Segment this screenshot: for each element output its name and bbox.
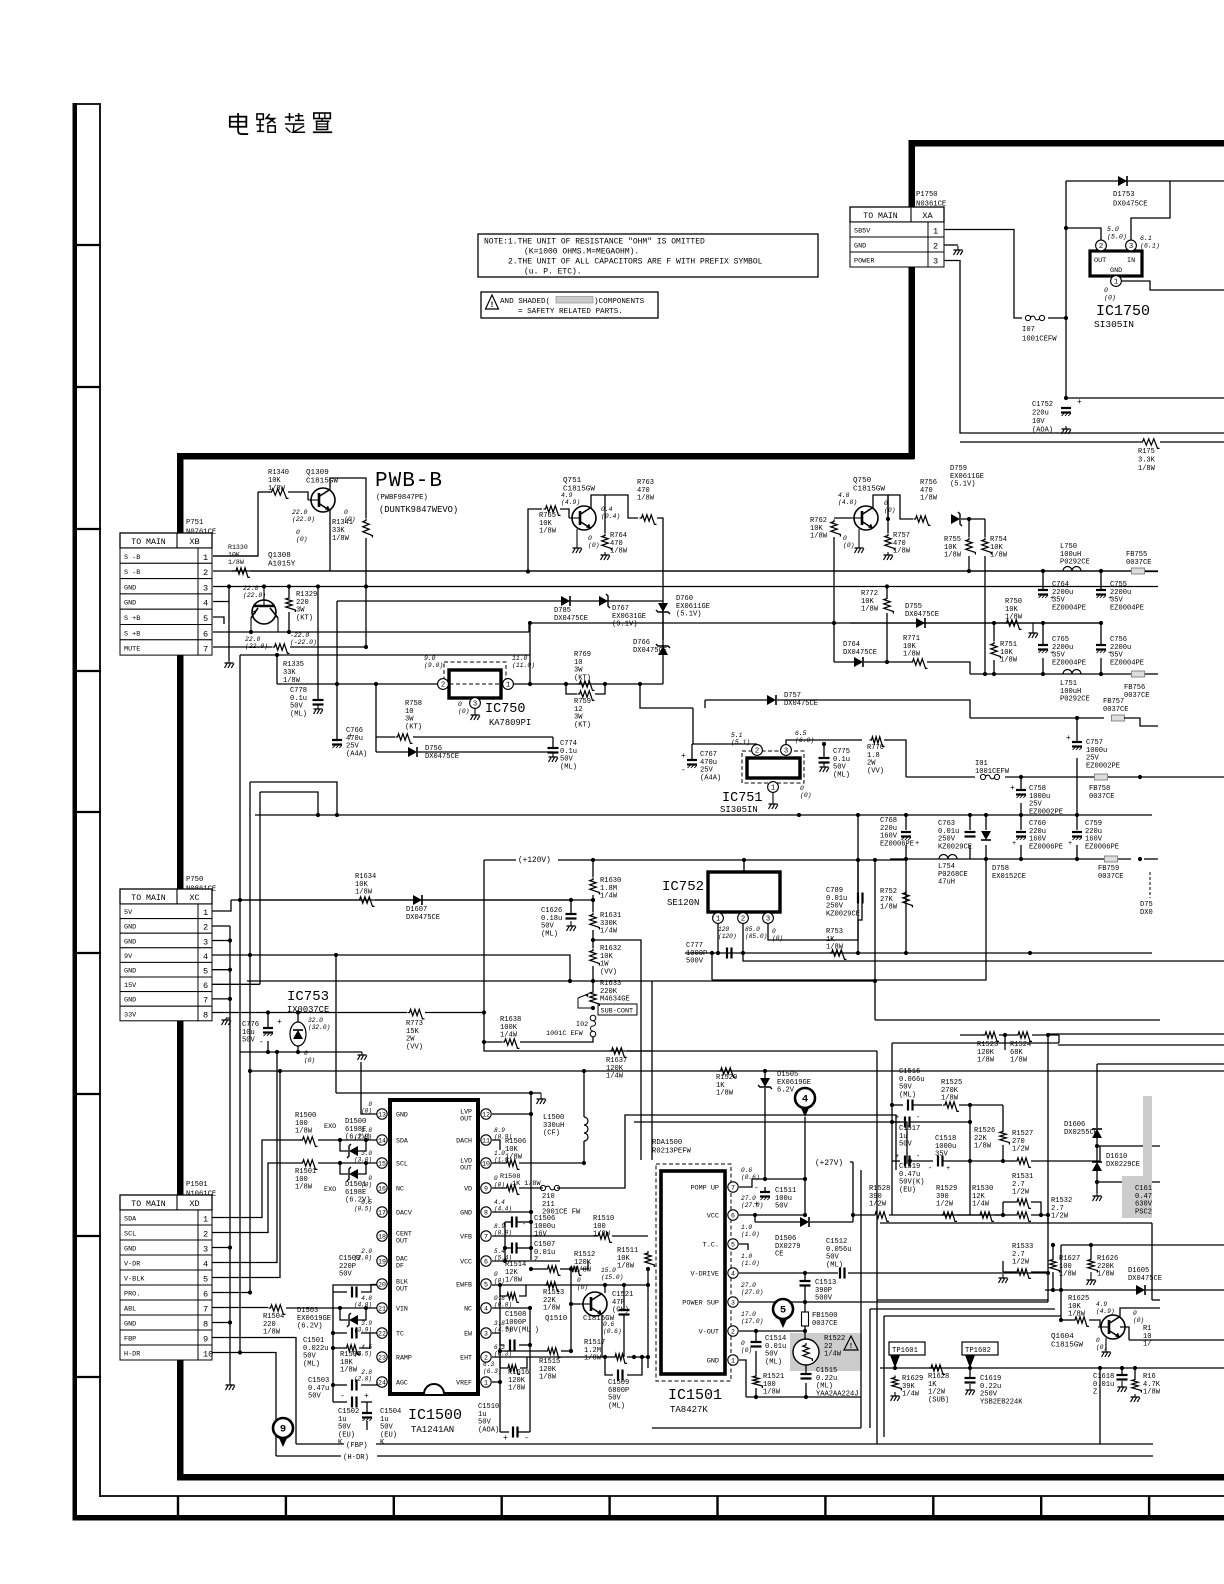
svg-text:1001CEFW: 1001CEFW xyxy=(1022,336,1057,344)
zener D759 xyxy=(950,465,984,526)
svg-text:10K: 10K xyxy=(539,520,553,528)
svg-text:C1626: C1626 xyxy=(541,907,562,915)
wire R1329 top xyxy=(288,587,290,597)
transistor Q750 xyxy=(851,477,885,530)
node C777 xyxy=(710,951,714,955)
svg-text:(ML): (ML) xyxy=(833,771,850,779)
svg-text:160V: 160V xyxy=(1029,836,1047,844)
wire C789 v2 xyxy=(858,903,862,953)
svg-text:1: 1 xyxy=(933,227,938,237)
wire I01 right xyxy=(1005,776,1224,778)
svg-text:(0): (0) xyxy=(458,708,470,715)
svg-text:+: + xyxy=(681,752,686,761)
ground R1626 xyxy=(1087,1272,1096,1285)
wire C759 bot xyxy=(1076,845,1078,859)
svg-text:D75: D75 xyxy=(1140,901,1153,909)
wire C1507 l xyxy=(505,1247,512,1249)
svg-text:R1630: R1630 xyxy=(600,877,621,885)
svg-text:2: 2 xyxy=(741,916,745,924)
node +120V xyxy=(591,858,860,862)
wire C1509 loop2 xyxy=(627,1357,642,1375)
svg-text:TP1601: TP1601 xyxy=(892,1347,918,1355)
wire XB pin7 to R1335 xyxy=(213,646,272,648)
IC752 body xyxy=(708,872,780,912)
node C757 xyxy=(1075,716,1079,720)
svg-text:5.1: 5.1 xyxy=(731,732,743,739)
svg-text:R764: R764 xyxy=(610,532,627,540)
IC1501 body xyxy=(661,1171,725,1374)
svg-text:R770: R770 xyxy=(867,744,884,752)
svg-text:1/4W: 1/4W xyxy=(500,1032,518,1040)
svg-text:15K: 15K xyxy=(406,1028,420,1036)
resistor R1524 xyxy=(1010,1032,1032,1065)
svg-text:PSC2: PSC2 xyxy=(1135,1208,1152,1216)
svg-text:R1: R1 xyxy=(1143,1325,1152,1333)
svg-text:250V: 250V xyxy=(826,903,844,911)
svg-text:(0.4): (0.4) xyxy=(601,513,620,520)
wire D1503 loop2 xyxy=(358,1308,366,1320)
svg-text:DX0475CE: DX0475CE xyxy=(425,753,459,761)
svg-text:(27.0): (27.0) xyxy=(741,1202,763,1209)
svg-text:1/4W: 1/4W xyxy=(824,1351,842,1359)
svg-text:(PWBF9847PE): (PWBF9847PE) xyxy=(376,494,428,502)
svg-text:100: 100 xyxy=(1059,1263,1072,1271)
svg-text:C1509: C1509 xyxy=(608,1379,629,1387)
svg-text:(0.5): (0.5) xyxy=(354,1206,372,1213)
svg-text:-: - xyxy=(754,1184,759,1193)
ground R1533 xyxy=(999,1274,1008,1283)
wire R1524 r xyxy=(1032,1034,1059,1036)
svg-text:C1507: C1507 xyxy=(534,1241,555,1249)
svg-text:+: + xyxy=(1108,595,1112,603)
svg-text:(0): (0) xyxy=(772,935,783,942)
svg-text:DX0475CE: DX0475CE xyxy=(633,647,667,655)
ground XD xyxy=(226,1382,235,1390)
svg-text:1/8W: 1/8W xyxy=(508,1385,526,1393)
svg-text:1/8W: 1/8W xyxy=(355,889,373,897)
wire C765 stub xyxy=(1042,623,1044,645)
svg-text:3W: 3W xyxy=(574,667,583,675)
svg-text:R1520: R1520 xyxy=(716,1074,737,1082)
wire C1509 loop xyxy=(605,1357,613,1375)
svg-text:1: 1 xyxy=(484,1380,488,1387)
wire pin7 C1507 xyxy=(492,1235,596,1237)
svg-text:R1522: R1522 xyxy=(824,1335,845,1343)
resistor EWFB par xyxy=(505,1293,519,1303)
Q751 values xyxy=(561,492,620,549)
svg-text:(-22.0): (-22.0) xyxy=(290,639,317,646)
wire bus y656 xyxy=(240,654,530,656)
svg-text:1/8W: 1/8W xyxy=(893,548,911,556)
resistor R1533 xyxy=(1012,1243,1033,1278)
resistor R751 xyxy=(991,641,1018,665)
resistor R1756 xyxy=(1138,439,1160,473)
svg-text:25V: 25V xyxy=(1086,755,1100,763)
wire R755 bottom xyxy=(968,556,970,571)
svg-text:(CF): (CF) xyxy=(543,1130,560,1138)
wire Q1510 coll xyxy=(604,1285,606,1293)
svg-text:7: 7 xyxy=(484,1234,488,1241)
resistor R1520 xyxy=(716,1068,737,1098)
connector table XD xyxy=(120,1195,213,1360)
bead FB759 xyxy=(1098,856,1124,881)
wire R1624 v xyxy=(1134,1368,1136,1378)
svg-text:D1610: D1610 xyxy=(1106,1153,1127,1161)
svg-text:1/8W: 1/8W xyxy=(505,1154,523,1162)
node vdrive xyxy=(803,1271,1050,1275)
svg-text:GND: GND xyxy=(124,1321,136,1329)
wire IC752 pin2 down xyxy=(742,924,744,953)
wire C1515 bottom xyxy=(805,1383,807,1397)
svg-text:50V: 50V xyxy=(775,1203,789,1211)
wire box IC1501 right xyxy=(860,1170,862,1428)
svg-text:C765: C765 xyxy=(1052,636,1069,644)
node x240 top xyxy=(238,898,242,902)
svg-text:0.18u: 0.18u xyxy=(541,915,562,923)
node XD8 xyxy=(228,1320,232,1324)
svg-text:10K: 10K xyxy=(861,598,875,606)
svg-text:(ML): (ML) xyxy=(303,1360,320,1368)
bead FB758 xyxy=(1089,774,1115,801)
svg-text:C1513: C1513 xyxy=(815,1279,836,1287)
svg-text:0037CE: 0037CE xyxy=(1103,706,1129,714)
svg-text:0: 0 xyxy=(458,701,462,708)
capacitor C1513 xyxy=(800,1279,837,1303)
label R16xx xyxy=(1143,1325,1152,1349)
svg-text:9: 9 xyxy=(203,1335,208,1345)
left margin tick 5 xyxy=(73,811,102,813)
svg-text:C766: C766 xyxy=(346,727,363,735)
svg-text:Q1309: Q1309 xyxy=(306,469,329,477)
svg-text:R1626: R1626 xyxy=(1097,1255,1118,1263)
resistor R756 xyxy=(914,479,938,525)
svg-text:EZ0006PE: EZ0006PE xyxy=(880,840,914,848)
wire R1533 l xyxy=(1003,1271,1015,1273)
svg-text:1/: 1/ xyxy=(1143,1341,1152,1349)
svg-text:EZ0004PE: EZ0004PE xyxy=(1110,604,1144,612)
svg-text:FB758: FB758 xyxy=(1089,785,1110,793)
wire R1522 top xyxy=(804,1331,806,1339)
svg-text:D1501: D1501 xyxy=(345,1181,366,1189)
bottom ruler tick 4 xyxy=(501,1496,503,1516)
svg-text:C1815GW: C1815GW xyxy=(853,486,885,494)
svg-text:R1516: R1516 xyxy=(508,1369,529,1377)
svg-text:(EU): (EU) xyxy=(380,1431,397,1439)
svg-text:EXO: EXO xyxy=(324,1123,336,1131)
resistor R763 xyxy=(637,479,657,524)
IC752 pins xyxy=(713,913,774,924)
wire pin6 vcc2 xyxy=(739,1214,805,1216)
svg-text:8: 8 xyxy=(203,1320,208,1330)
wire C775 stub xyxy=(823,744,825,758)
node p7 tail xyxy=(803,1177,807,1181)
svg-text:1/8W: 1/8W xyxy=(990,552,1008,560)
wire bus1093 tail xyxy=(531,1092,541,1094)
resistor R1530 xyxy=(972,1185,994,1221)
svg-text:1/2W: 1/2W xyxy=(928,1389,946,1397)
svg-text:GND: GND xyxy=(124,1246,136,1254)
resistor R1624 v xyxy=(1132,1373,1161,1397)
wire pin10-R1506 xyxy=(492,1162,505,1164)
svg-text:GND: GND xyxy=(854,243,866,251)
nodes bus815 xyxy=(316,813,1079,817)
resistor R1532 xyxy=(1015,1197,1072,1221)
svg-text:24: 24 xyxy=(378,1380,386,1387)
svg-text:390P: 390P xyxy=(815,1287,832,1295)
svg-text:(0.6): (0.6) xyxy=(741,1174,760,1181)
wire eht right xyxy=(627,1356,648,1358)
diode D756 xyxy=(408,745,459,761)
svg-text:(4.8): (4.8) xyxy=(838,499,857,506)
wire x336 riser xyxy=(335,955,337,1093)
svg-text:R1523: R1523 xyxy=(977,1041,998,1049)
svg-text:C758: C758 xyxy=(1029,785,1046,793)
bottom ruler tick 10 xyxy=(1148,1496,1150,1516)
svg-text:3: 3 xyxy=(203,583,208,593)
wire R1523-R1524 xyxy=(999,1034,1016,1036)
svg-text:10K: 10K xyxy=(600,953,614,961)
svg-text:11.0: 11.0 xyxy=(512,655,528,662)
svg-text:1/4W: 1/4W xyxy=(600,928,618,936)
svg-text:D1505: D1505 xyxy=(777,1071,798,1079)
wire C757 stub xyxy=(1076,718,1078,742)
node C1618 xyxy=(1120,1366,1137,1370)
svg-text:10K: 10K xyxy=(990,544,1004,552)
ground C1626 xyxy=(567,921,576,931)
nodes EHT xyxy=(603,1355,650,1359)
svg-text:P750: P750 xyxy=(186,876,203,884)
svg-text:6: 6 xyxy=(203,1290,208,1300)
wire res row m xyxy=(560,1268,569,1270)
pin3 extra values xyxy=(0,0,1,1)
capacitor C1508 lbl xyxy=(505,1311,539,1335)
svg-text:R773: R773 xyxy=(406,1020,423,1028)
svg-text:4.9: 4.9 xyxy=(561,492,573,499)
svg-text:GND: GND xyxy=(124,924,136,932)
svg-text:EZ0004PE: EZ0004PE xyxy=(1052,604,1086,612)
svg-text:1/8W: 1/8W xyxy=(617,1263,635,1271)
wire gnd bus 1397 xyxy=(746,1396,861,1398)
svg-text:C789: C789 xyxy=(826,887,843,895)
svg-text:50V: 50V xyxy=(560,756,574,764)
wire vertical x366 xyxy=(365,587,367,648)
wire box IC1501 bottom xyxy=(652,1427,861,1429)
svg-text:0.6: 0.6 xyxy=(741,1167,752,1174)
wire D1607 right xyxy=(423,899,571,901)
capacitor C15x ew xyxy=(510,1340,515,1351)
svg-text:P751: P751 xyxy=(186,519,203,527)
node R1524 xyxy=(1003,1033,1050,1037)
wire D764 line2 xyxy=(864,661,911,663)
svg-text:50V: 50V xyxy=(899,1141,913,1149)
svg-text:1K 1/8W: 1K 1/8W xyxy=(512,1180,541,1188)
wire C764 stub xyxy=(1042,571,1044,590)
capacitor C766 xyxy=(332,727,367,758)
node x530 xyxy=(528,621,532,686)
svg-text:CENT: CENT xyxy=(396,1231,412,1238)
svg-text:R1515: R1515 xyxy=(539,1358,560,1366)
svg-text:220: 220 xyxy=(296,599,309,607)
svg-text:C757: C757 xyxy=(1086,739,1103,747)
wire D1501 loop xyxy=(340,1163,348,1174)
svg-text:3: 3 xyxy=(933,257,938,267)
wire R1506 right xyxy=(519,1162,584,1164)
svg-text:(K=1000 OHMS.M=MEGAOHM).: (K=1000 OHMS.M=MEGAOHM). xyxy=(524,248,639,257)
bottom ruler tick 3 xyxy=(393,1496,395,1516)
wire pin7 net xyxy=(739,1179,805,1187)
svg-text:15V: 15V xyxy=(124,982,137,990)
node x336 xyxy=(334,953,338,957)
title 电路装置 xyxy=(230,113,332,134)
svg-text:(9.0): (9.0) xyxy=(424,662,443,669)
svg-text:R1631: R1631 xyxy=(600,912,621,920)
svg-text:3W: 3W xyxy=(574,714,583,722)
svg-text:(VV): (VV) xyxy=(600,968,617,976)
svg-text:+: + xyxy=(895,1153,899,1161)
svg-text:50V: 50V xyxy=(833,764,847,772)
svg-text:C1815GW: C1815GW xyxy=(1051,1342,1083,1350)
wire y1020 line xyxy=(875,1019,1160,1021)
capacitor C1511 xyxy=(754,1184,796,1211)
wire C1514-R1521 xyxy=(755,1351,757,1374)
node R751b xyxy=(992,672,996,676)
svg-text:21: 21 xyxy=(378,1306,386,1313)
wire pin3 power xyxy=(739,1301,1048,1303)
ground C778 xyxy=(314,705,323,714)
svg-text:1/8W: 1/8W xyxy=(941,1095,959,1103)
wire pin6 vcc xyxy=(492,1260,560,1262)
svg-text:1000P: 1000P xyxy=(686,950,707,958)
resistor R754 xyxy=(982,536,1008,560)
wire XB gnd riser xyxy=(228,602,230,661)
svg-text:C764: C764 xyxy=(1052,581,1069,589)
svg-text:10K: 10K xyxy=(1000,649,1014,657)
ground C775 xyxy=(820,763,829,772)
svg-text:0037CE: 0037CE xyxy=(812,1320,838,1328)
svg-text:-22.0: -22.0 xyxy=(290,632,309,639)
svg-text:(0): (0) xyxy=(1133,1317,1144,1324)
svg-text:Z: Z xyxy=(1093,1389,1097,1397)
svg-text:DX0475CE: DX0475CE xyxy=(784,700,818,708)
svg-text:47P: 47P xyxy=(612,1299,625,1307)
wire R1508-fuse xyxy=(519,1187,543,1189)
svg-text:SB5V: SB5V xyxy=(854,228,871,236)
wire x892 v xyxy=(891,1095,893,1215)
svg-text:9: 9 xyxy=(484,1186,488,1193)
wire pin12 net xyxy=(492,1113,531,1115)
svg-text:-: - xyxy=(524,1434,529,1443)
node I01r xyxy=(1019,775,1142,779)
ground XC xyxy=(222,1018,231,1025)
svg-text:16: 16 xyxy=(378,1186,386,1193)
svg-text:4: 4 xyxy=(203,952,208,962)
wire bus y1052 xyxy=(240,1051,362,1053)
svg-text:S -B: S -B xyxy=(124,569,140,577)
svg-text:C759: C759 xyxy=(1085,820,1102,828)
svg-text:(5.1V): (5.1V) xyxy=(950,481,976,489)
svg-text:6800P: 6800P xyxy=(608,1387,629,1395)
wire XD pin2 xyxy=(212,1163,301,1233)
svg-text:1/8W: 1/8W xyxy=(295,1184,313,1192)
svg-text:EZ0004PE: EZ0004PE xyxy=(1052,659,1086,667)
resistor R1505 xyxy=(340,1345,361,1375)
wire x240 vert low xyxy=(239,900,241,1353)
node x571 xyxy=(569,1267,573,1353)
svg-text:3: 3 xyxy=(784,748,788,756)
svg-text:1/8W: 1/8W xyxy=(543,1305,561,1313)
svg-text:R1627: R1627 xyxy=(1059,1255,1080,1263)
resistor R755 xyxy=(944,536,975,560)
svg-text:1/8W: 1/8W xyxy=(880,904,898,912)
svg-text:GND: GND xyxy=(124,997,136,1005)
bead FB757 xyxy=(1103,698,1129,721)
svg-text:68K: 68K xyxy=(1010,1049,1024,1057)
Q1510 values xyxy=(577,1267,623,1335)
node vref xyxy=(498,1380,502,1384)
wire R1627 bot xyxy=(1052,1272,1054,1290)
svg-text:(27.0): (27.0) xyxy=(741,1289,763,1296)
connector table XA xyxy=(850,207,944,267)
svg-text:470: 470 xyxy=(637,487,650,495)
svg-text:32.0: 32.0 xyxy=(308,1017,323,1024)
svg-text:A1015Y: A1015Y xyxy=(268,561,296,569)
resistor R1521v xyxy=(753,1373,784,1397)
svg-text:R1629: R1629 xyxy=(902,1375,923,1383)
wire pin8 gnd xyxy=(492,1211,531,1213)
svg-text:R1330: R1330 xyxy=(228,544,248,551)
svg-text:(22.0): (22.0) xyxy=(243,592,266,599)
node Q base xyxy=(569,1302,573,1306)
capacitor C776 xyxy=(242,1018,282,1047)
node y1093 xyxy=(529,1091,533,1095)
node IC750 out xyxy=(638,682,642,686)
svg-text:0.22u: 0.22u xyxy=(816,1375,837,1383)
svg-text:11: 11 xyxy=(482,1138,490,1145)
svg-text:-: - xyxy=(916,1153,920,1161)
wire R1533 lv xyxy=(1002,1261,1004,1272)
svg-text:1/8W: 1/8W xyxy=(977,1057,995,1065)
left margin tick 1 xyxy=(73,244,102,246)
svg-text:1: 1 xyxy=(203,553,208,563)
svg-text:(ML): (ML) xyxy=(560,763,577,771)
wire XD pin4 xyxy=(212,1052,277,1263)
svg-text:220u: 220u xyxy=(1029,828,1046,836)
svg-text:50V: 50V xyxy=(303,1353,317,1361)
IC1501 caption xyxy=(668,1387,722,1415)
wire R1529 r xyxy=(957,1214,978,1216)
svg-text:POWER SUP: POWER SUP xyxy=(682,1300,719,1308)
node x240 low xyxy=(238,1350,242,1354)
capacitor C1517 xyxy=(895,1114,920,1149)
capacitor C1618 xyxy=(1093,1373,1128,1397)
wire R1631-R1632 xyxy=(592,930,594,948)
svg-text:6.3: 6.3 xyxy=(483,1361,494,1368)
nodes bus571 xyxy=(1041,569,1103,573)
resistor R1634 xyxy=(355,873,376,906)
wire C758 bottom xyxy=(1020,803,1022,815)
diode D1753 xyxy=(1113,176,1148,209)
resistor R762 xyxy=(810,517,840,541)
svg-text:C1503: C1503 xyxy=(308,1377,329,1385)
balloon 5 xyxy=(773,1299,793,1328)
wire C1500 right xyxy=(361,1285,377,1293)
IC752 values xyxy=(718,926,783,942)
svg-text:1001C EFW: 1001C EFW xyxy=(546,1030,584,1038)
wire XC pin6 riser xyxy=(259,792,261,984)
svg-text:(A4A): (A4A) xyxy=(346,750,367,758)
wire box x1097 xyxy=(1096,1064,1098,1128)
wire R770 corner xyxy=(884,740,906,777)
